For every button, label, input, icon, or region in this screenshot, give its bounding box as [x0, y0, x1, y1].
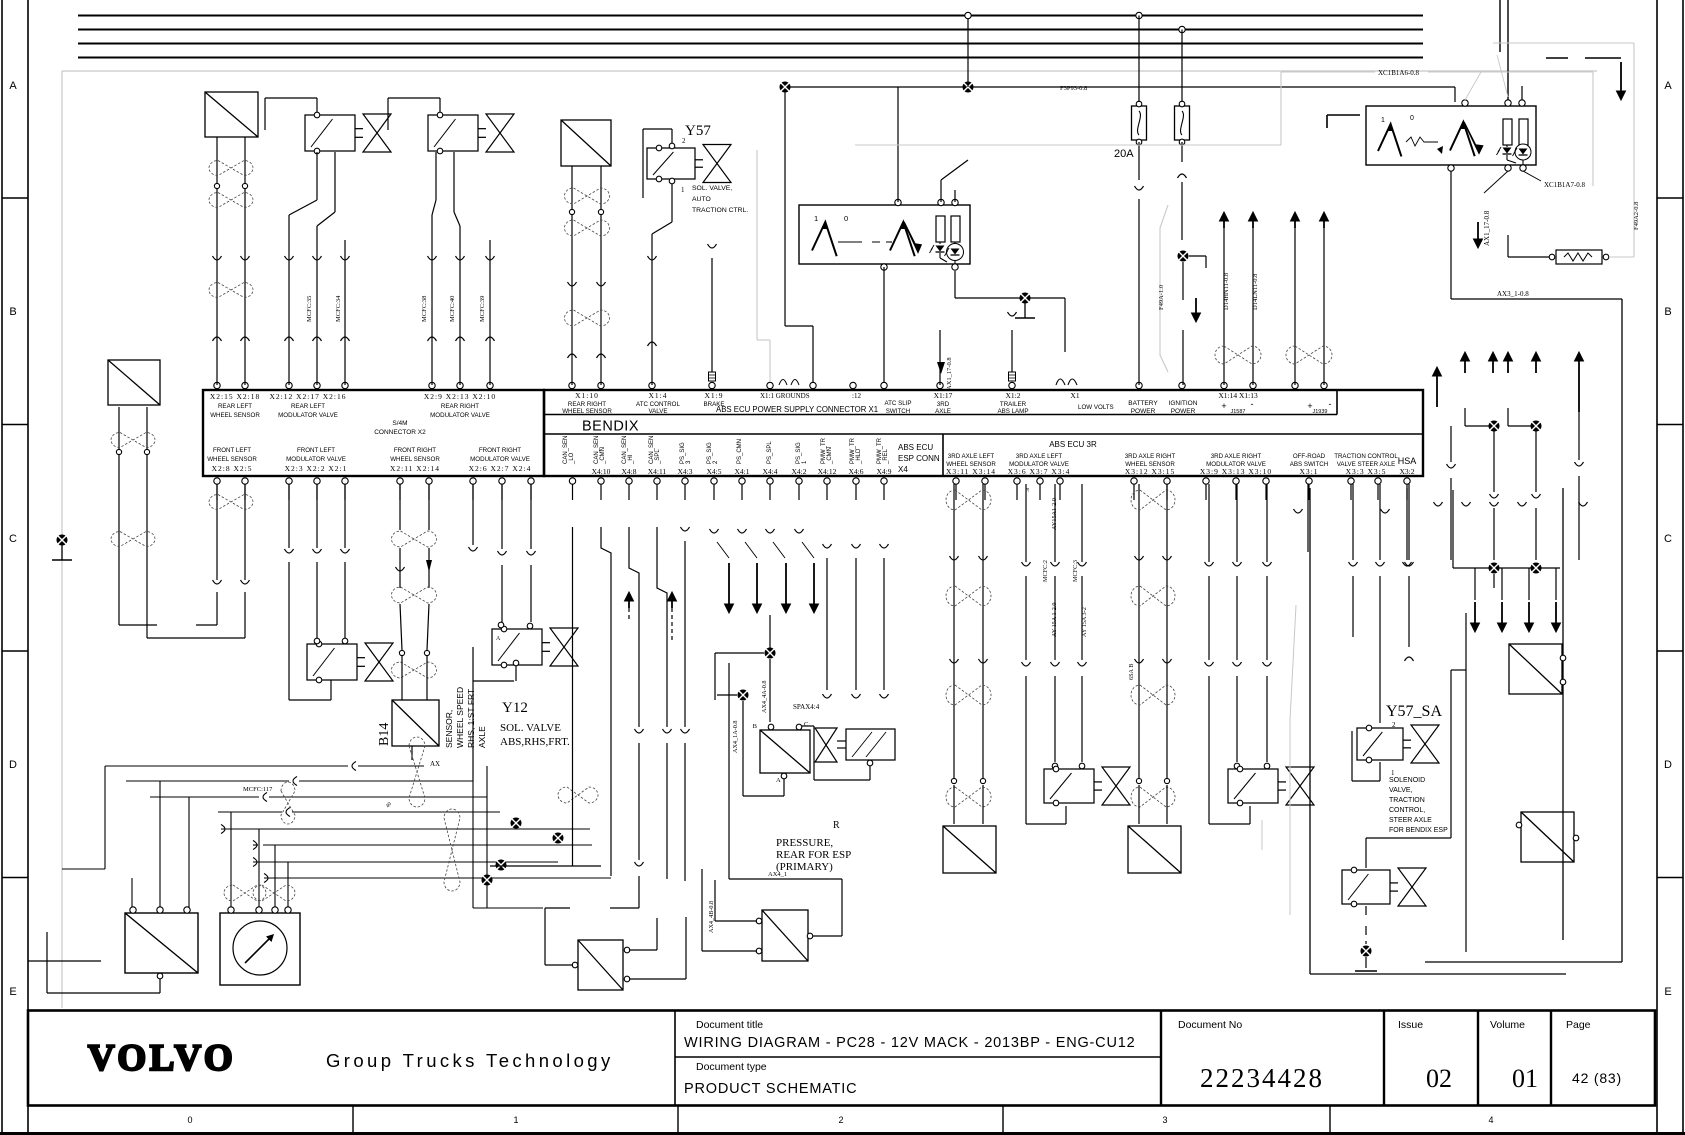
- svg-text:SPAX4:4: SPAX4:4: [793, 703, 820, 711]
- svg-text:-: -: [1251, 399, 1254, 409]
- svg-text:ABS ECU 3R: ABS ECU 3R: [1049, 440, 1097, 449]
- svg-text:X2:15 X2:18: X2:15 X2:18: [210, 392, 260, 401]
- svg-text:X3:1: X3:1: [1300, 467, 1319, 476]
- svg-text:Y57: Y57: [685, 123, 711, 139]
- svg-text:02: 02: [1426, 1064, 1452, 1093]
- svg-text:20A: 20A: [1114, 148, 1134, 160]
- svg-text:X2:9 X2:13 X2:10: X2:9 X2:13 X2:10: [424, 392, 496, 401]
- svg-text:FOR BENDIX ESP: FOR BENDIX ESP: [1389, 827, 1448, 834]
- svg-text:X4:4: X4:4: [763, 467, 778, 476]
- svg-text:2: 2: [682, 137, 686, 145]
- svg-text:MODULATOR VALVE: MODULATOR VALVE: [286, 456, 346, 463]
- svg-text:CONNECTOR X2: CONNECTOR X2: [374, 429, 426, 436]
- svg-text:SOL. VALVE: SOL. VALVE: [500, 722, 561, 734]
- svg-text:MCFC:40: MCFC:40: [449, 296, 456, 322]
- svg-text:REAR LEFT: REAR LEFT: [291, 403, 325, 410]
- svg-text:Volume: Volume: [1490, 1019, 1525, 1031]
- svg-text:X2:12 X2:17 X2:16: X2:12 X2:17 X2:16: [270, 392, 347, 401]
- svg-text:WHEEL SENSOR: WHEEL SENSOR: [390, 456, 440, 463]
- svg-text:MODULATOR VALVE: MODULATOR VALVE: [278, 412, 338, 419]
- svg-text:ABS,RHS,FRT.: ABS,RHS,FRT.: [500, 736, 570, 748]
- svg-text:WHEEL SENSOR: WHEEL SENSOR: [562, 408, 612, 415]
- svg-text:X4:2: X4:2: [792, 467, 807, 476]
- svg-text:0: 0: [1410, 115, 1414, 122]
- svg-text:X4:3: X4:3: [678, 467, 693, 476]
- svg-text:3RD: 3RD: [937, 401, 950, 408]
- svg-text:3RD AXLE RIGHT: 3RD AXLE RIGHT: [1211, 453, 1262, 460]
- svg-text:4: 4: [1488, 1115, 1493, 1125]
- svg-text:REAR RIGHT: REAR RIGHT: [568, 401, 606, 408]
- svg-text:X2:11 X2:14: X2:11 X2:14: [390, 464, 440, 473]
- svg-text:TRAILER: TRAILER: [1000, 401, 1027, 408]
- svg-text:42 (83): 42 (83): [1572, 1070, 1622, 1086]
- svg-text:D14HN11-0.8: D14HN11-0.8: [1223, 273, 1230, 310]
- svg-text:VOLVO: VOLVO: [88, 1038, 236, 1079]
- svg-text:Y12: Y12: [502, 700, 528, 716]
- svg-text:B: B: [753, 723, 758, 730]
- svg-text:X1: X1: [1070, 391, 1079, 400]
- svg-text:AX1_17-0.8: AX1_17-0.8: [946, 357, 953, 390]
- svg-text:AX4_1: AX4_1: [768, 871, 787, 878]
- svg-text:X1:4: X1:4: [649, 391, 668, 400]
- svg-text:SWITCH: SWITCH: [886, 408, 910, 415]
- svg-text:A: A: [1664, 80, 1672, 92]
- svg-text:ESP CONN: ESP CONN: [898, 454, 940, 463]
- svg-text:1: 1: [1391, 769, 1395, 777]
- svg-text:SOLENOID: SOLENOID: [1389, 777, 1425, 784]
- svg-text:01: 01: [1512, 1064, 1538, 1093]
- svg-text:WHEEL SPEED: WHEEL SPEED: [455, 687, 465, 748]
- svg-text:ATC CONTROL: ATC CONTROL: [636, 401, 680, 408]
- svg-text:_CMN: _CMN: [827, 447, 833, 465]
- svg-text:AX: AX: [430, 760, 440, 768]
- svg-text:SOL. VALVE,: SOL. VALVE,: [692, 185, 732, 192]
- svg-text:OFF-ROAD: OFF-ROAD: [1293, 453, 1326, 460]
- svg-text::12: :12: [852, 392, 861, 400]
- svg-text:X4: X4: [898, 465, 908, 474]
- svg-text:MODULATOR VALVE: MODULATOR VALVE: [430, 412, 490, 419]
- svg-text:3RD AXLE LEFT: 3RD AXLE LEFT: [1016, 453, 1063, 460]
- svg-text:FRONT RIGHT: FRONT RIGHT: [479, 447, 521, 454]
- svg-text:CONTROL,: CONTROL,: [1389, 807, 1425, 814]
- svg-text:D: D: [1664, 759, 1672, 771]
- svg-text:RHS, 1:ST FRT: RHS, 1:ST FRT: [466, 689, 476, 748]
- svg-text:AY 15A 3-2: AY 15A 3-2: [1081, 607, 1088, 637]
- svg-text:Issue: Issue: [1398, 1019, 1423, 1031]
- svg-text:A: A: [776, 777, 781, 784]
- svg-text:X3:9 X3:13 X3:10: X3:9 X3:13 X3:10: [1200, 467, 1272, 476]
- svg-text:PRODUCT SCHEMATIC: PRODUCT SCHEMATIC: [684, 1081, 857, 1097]
- svg-text:1: 1: [814, 214, 818, 223]
- svg-text:REAR LEFT: REAR LEFT: [218, 403, 252, 410]
- svg-text:C: C: [1664, 533, 1672, 545]
- svg-text:X2:3 X2:2 X2:1: X2:3 X2:2 X2:1: [285, 464, 348, 473]
- svg-text:D: D: [9, 759, 17, 771]
- svg-text:-: -: [1329, 399, 1332, 409]
- svg-text:XC1B1A6-0.8: XC1B1A6-0.8: [1378, 69, 1420, 77]
- svg-text:X1:9: X1:9: [705, 391, 724, 400]
- svg-text:X3:12 X3:15: X3:12 X3:15: [1125, 467, 1175, 476]
- svg-text:IGNITION: IGNITION: [1169, 400, 1198, 407]
- svg-text:AXLE: AXLE: [477, 726, 487, 748]
- svg-text:MCFC:38: MCFC:38: [421, 296, 428, 322]
- svg-text:Page: Page: [1566, 1019, 1591, 1031]
- svg-text:_REL: _REL: [883, 448, 889, 465]
- svg-text:MCFC:117: MCFC:117: [243, 786, 273, 793]
- svg-text:_CMN: _CMN: [600, 447, 606, 465]
- svg-text:22234428: 22234428: [1200, 1063, 1324, 1093]
- svg-text:VALVE: VALVE: [648, 408, 667, 415]
- svg-text:POWER: POWER: [1171, 408, 1196, 415]
- svg-text:LOW VOLTS: LOW VOLTS: [1078, 404, 1114, 411]
- svg-text:BATTERY: BATTERY: [1128, 400, 1158, 407]
- svg-text:1: 1: [1381, 117, 1385, 124]
- svg-text:ABS ECU: ABS ECU: [898, 443, 933, 452]
- svg-text:WHEEL SENSOR: WHEEL SENSOR: [210, 412, 260, 419]
- svg-text:MCFC:35: MCFC:35: [306, 296, 313, 322]
- svg-text:A: A: [9, 80, 17, 92]
- svg-text:AX3_1-0.8: AX3_1-0.8: [1497, 290, 1529, 298]
- svg-text:C: C: [9, 533, 17, 545]
- svg-text:2: 2: [838, 1115, 843, 1125]
- svg-text:REAR FOR ESP: REAR FOR ESP: [776, 849, 851, 861]
- svg-text:_HLD: _HLD: [856, 448, 862, 465]
- svg-text:TRACTION CONTROL: TRACTION CONTROL: [1334, 453, 1398, 460]
- svg-text:HSA: HSA: [1398, 456, 1417, 466]
- svg-text:FRONT RIGHT: FRONT RIGHT: [394, 447, 436, 454]
- svg-text:SENSOR,: SENSOR,: [444, 710, 454, 748]
- svg-text:X3:2: X3:2: [1400, 467, 1415, 476]
- svg-text:Y57_SA: Y57_SA: [1386, 703, 1442, 720]
- svg-text:STEER AXLE: STEER AXLE: [1389, 817, 1432, 824]
- svg-text:ABS ECU POWER SUPPLY CONNECTOR: ABS ECU POWER SUPPLY CONNECTOR X1: [716, 405, 878, 414]
- svg-text:B: B: [9, 306, 16, 318]
- svg-text:F3P93-0.8: F3P93-0.8: [1060, 85, 1087, 92]
- svg-text:A: A: [496, 636, 501, 642]
- svg-text:X1:2: X1:2: [1006, 391, 1021, 400]
- svg-text:C: C: [804, 721, 808, 728]
- svg-text:Group Trucks Technology: Group Trucks Technology: [326, 1050, 614, 1071]
- svg-text:Document No: Document No: [1178, 1019, 1242, 1031]
- svg-text:X4:9: X4:9: [877, 467, 892, 476]
- svg-text:.8: .8: [1025, 488, 1031, 492]
- svg-text:X4:10: X4:10: [592, 467, 611, 476]
- svg-text:REAR RIGHT: REAR RIGHT: [441, 403, 479, 410]
- svg-text:X3:3 X3:5: X3:3 X3:5: [1346, 467, 1387, 476]
- svg-text:3RD AXLE LEFT: 3RD AXLE LEFT: [948, 453, 995, 460]
- svg-text:3RD AXLE RIGHT: 3RD AXLE RIGHT: [1125, 453, 1176, 460]
- svg-text:X2:8 X2:5: X2:8 X2:5: [212, 464, 253, 473]
- svg-text:MCFC:34: MCFC:34: [335, 295, 342, 322]
- svg-text:AX4_4B-0.8: AX4_4B-0.8: [708, 901, 715, 933]
- svg-text:VALVE,: VALVE,: [1389, 787, 1413, 794]
- svg-text:X2:6 X2:7 X2:4: X2:6 X2:7 X2:4: [469, 464, 532, 473]
- svg-text:WHEEL SENSOR: WHEEL SENSOR: [207, 456, 257, 463]
- svg-text:WIRING DIAGRAM - PC28 - 12V MA: WIRING DIAGRAM - PC28 - 12V MACK - 2013B…: [684, 1035, 1135, 1051]
- svg-text:E: E: [1664, 986, 1671, 998]
- svg-text:X4:5: X4:5: [707, 467, 722, 476]
- svg-text:X4:11: X4:11: [648, 467, 667, 476]
- svg-text:F49A-1.0: F49A-1.0: [1158, 285, 1165, 310]
- svg-text:X1:1 GROUNDS: X1:1 GROUNDS: [760, 392, 810, 400]
- svg-text:X3:6 X3:7 X3:4: X3:6 X3:7 X3:4: [1008, 467, 1071, 476]
- svg-text:MCFC:39: MCFC:39: [479, 296, 486, 322]
- svg-text:MODULATOR VALVE: MODULATOR VALVE: [470, 456, 530, 463]
- svg-text:FRONT LEFT: FRONT LEFT: [213, 447, 251, 454]
- svg-text:+: +: [1221, 401, 1226, 411]
- svg-text:AY15A1-2.0: AY15A1-2.0: [1051, 498, 1058, 530]
- svg-text:6SA B: 6SA B: [1128, 664, 1135, 680]
- svg-text:X1:10: X1:10: [575, 391, 599, 400]
- svg-text:PS_SPL: PS_SPL: [767, 441, 773, 464]
- svg-text:S/4M: S/4M: [392, 420, 407, 427]
- svg-text:0: 0: [187, 1115, 192, 1125]
- svg-text:Document title: Document title: [696, 1019, 763, 1031]
- svg-text:X1:17: X1:17: [934, 391, 953, 400]
- svg-text:_SPL: _SPL: [655, 449, 661, 465]
- svg-text:J1939: J1939: [1313, 409, 1328, 415]
- svg-text:F49A2-0.8: F49A2-0.8: [1633, 202, 1640, 230]
- svg-text:X3:11 X3:14: X3:11 X3:14: [946, 467, 996, 476]
- svg-text:0: 0: [844, 214, 848, 223]
- svg-text:BENDIX: BENDIX: [582, 419, 639, 435]
- svg-text:1: 1: [513, 1115, 518, 1125]
- svg-text:D14LN11-0.8: D14LN11-0.8: [1252, 274, 1259, 310]
- svg-text:R: R: [833, 820, 840, 831]
- svg-text:1: 1: [681, 186, 685, 194]
- svg-text:_HI: _HI: [628, 454, 634, 465]
- svg-text:PS_CMN: PS_CMN: [737, 439, 743, 464]
- svg-text:ABS LAMP: ABS LAMP: [998, 408, 1029, 415]
- svg-text:_LO: _LO: [569, 452, 575, 465]
- svg-text:AX1_17-0.8: AX1_17-0.8: [1483, 210, 1491, 246]
- svg-text:E: E: [9, 986, 16, 998]
- svg-text:AX4_1A-0.8: AX4_1A-0.8: [732, 721, 739, 753]
- svg-text:3: 3: [1162, 1115, 1167, 1125]
- svg-text:X4:8: X4:8: [622, 467, 637, 476]
- svg-text:POWER: POWER: [1131, 408, 1156, 415]
- svg-text:J1587: J1587: [1231, 409, 1246, 415]
- svg-text:B: B: [1664, 306, 1671, 318]
- svg-text:AX4_4A-0.8: AX4_4A-0.8: [761, 681, 768, 713]
- svg-text:PRESSURE,: PRESSURE,: [776, 837, 833, 849]
- svg-text:MCFC:2: MCFC:2: [1042, 560, 1049, 582]
- svg-text:X4:1: X4:1: [735, 467, 750, 476]
- svg-text:X4:12: X4:12: [818, 467, 837, 476]
- svg-text:AY 15A 1-2.0: AY 15A 1-2.0: [1051, 603, 1058, 637]
- svg-text:Document type: Document type: [696, 1061, 767, 1073]
- svg-text:AXLE: AXLE: [935, 408, 951, 415]
- svg-text:MCFC:3: MCFC:3: [1072, 560, 1079, 582]
- svg-text:ATC SLIP: ATC SLIP: [884, 400, 911, 407]
- svg-text:AUTO: AUTO: [692, 196, 711, 203]
- svg-text:FRONT LEFT: FRONT LEFT: [297, 447, 335, 454]
- svg-text:X4:6: X4:6: [849, 467, 864, 476]
- svg-text:XC1B1A7-0.8: XC1B1A7-0.8: [1544, 181, 1586, 189]
- svg-text:TRACTION: TRACTION: [1389, 797, 1425, 804]
- svg-text:TRACTION CTRL.: TRACTION CTRL.: [692, 207, 748, 214]
- svg-text:B14: B14: [377, 723, 392, 746]
